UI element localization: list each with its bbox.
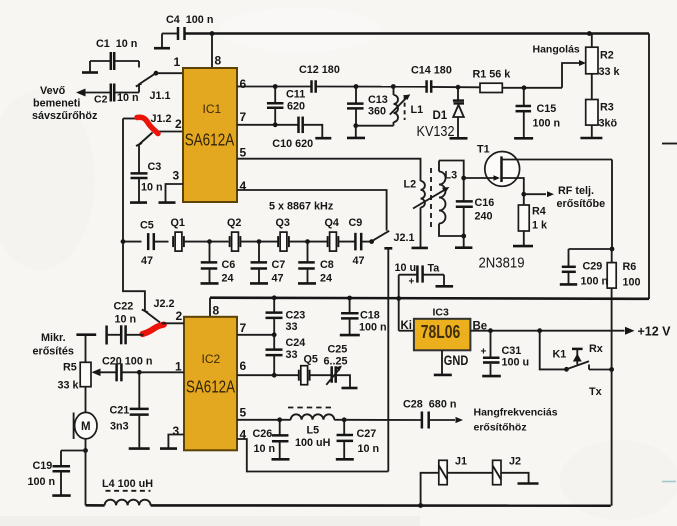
svg-text:47: 47 xyxy=(272,273,284,285)
node C11 top xyxy=(273,84,278,89)
node R2 top xyxy=(587,31,592,36)
capacitor Ta 10u tantalum xyxy=(399,274,418,276)
jack J2 xyxy=(493,460,501,484)
capacitor C7 xyxy=(258,242,260,263)
wire T1 drain down xyxy=(611,160,613,250)
switch J1.2 lever xyxy=(139,133,153,145)
svg-text:C8: C8 xyxy=(320,259,334,271)
wire pin 3 IC1 stub xyxy=(166,184,184,203)
svg-text:M: M xyxy=(81,421,91,433)
svg-text:Q2: Q2 xyxy=(227,217,241,229)
svg-text:erősítőbe: erősítőbe xyxy=(557,198,606,210)
svg-text:R5: R5 xyxy=(63,362,77,374)
svg-text:100 n: 100 n xyxy=(533,118,561,130)
ground C27 xyxy=(336,458,354,461)
wire pin 2 IC1 xyxy=(156,131,183,133)
node C16 bottom xyxy=(461,234,466,239)
svg-text:R1 56 k: R1 56 k xyxy=(473,69,512,81)
ground C13 xyxy=(355,126,357,138)
ground L2 xyxy=(412,247,428,250)
inductor L4 xyxy=(105,500,151,506)
wire J1 to J2 xyxy=(447,472,492,474)
ground pin3 IC1 xyxy=(159,201,176,204)
svg-text:C2: C2 xyxy=(94,94,108,106)
crystal Q4 xyxy=(327,236,329,247)
svg-text:C3: C3 xyxy=(148,161,162,173)
svg-text:J2.1: J2.1 xyxy=(394,232,415,244)
wire bottom ground rail xyxy=(151,504,611,507)
red mark J2.2 xyxy=(143,325,164,334)
svg-text:R3: R3 xyxy=(600,102,614,114)
mic bias terminal bar xyxy=(76,333,96,336)
capacitor C16 xyxy=(463,178,465,201)
node C11 bottom xyxy=(273,122,278,127)
svg-text:33 k: 33 k xyxy=(599,66,621,78)
svg-text:C22: C22 xyxy=(114,301,134,313)
wire C13 to L1 bottom xyxy=(356,125,394,127)
svg-text:5: 5 xyxy=(240,406,247,420)
inductor L3 xyxy=(438,161,440,172)
svg-text:C29: C29 xyxy=(583,261,603,273)
crystal Q1 xyxy=(172,236,174,247)
svg-text:C9: C9 xyxy=(349,217,363,229)
svg-text:4: 4 xyxy=(240,428,247,442)
svg-text:240: 240 xyxy=(475,211,493,223)
capacitor C13 variable xyxy=(355,87,357,104)
svg-text:5 x 8867 kHz: 5 x 8867 kHz xyxy=(269,201,334,213)
svg-text:47: 47 xyxy=(353,255,365,267)
wire Q2 to Q3 xyxy=(240,241,279,243)
wire pin 3 IC2 stub xyxy=(168,435,184,448)
node chain left xyxy=(121,239,126,244)
svg-text:3: 3 xyxy=(173,424,180,438)
svg-text:Q5: Q5 xyxy=(304,354,318,366)
svg-text:Q1: Q1 xyxy=(171,217,185,229)
arrow +12V xyxy=(625,327,635,335)
svg-text:78L06: 78L06 xyxy=(421,322,461,342)
svg-text:33: 33 xyxy=(286,321,298,333)
svg-text:C4 100 n: C4 100 n xyxy=(166,14,213,26)
jack J1 xyxy=(439,460,447,484)
node D1 xyxy=(456,85,461,90)
svg-text:L5: L5 xyxy=(307,425,320,437)
ground C6 xyxy=(201,282,219,285)
svg-text:10 n: 10 n xyxy=(141,182,163,194)
capacitor C18 xyxy=(349,298,351,313)
svg-text:L1: L1 xyxy=(411,104,424,116)
wire pin 5 IC2 xyxy=(237,419,280,421)
wire Q4 to C9 xyxy=(338,241,355,243)
svg-text:2: 2 xyxy=(176,309,183,323)
wire to pin 1 IC2 xyxy=(139,371,184,373)
svg-text:C16: C16 xyxy=(475,197,495,209)
svg-text:T1: T1 xyxy=(477,144,490,156)
wire right drop to bottom rail xyxy=(611,370,613,506)
svg-text:L2: L2 xyxy=(404,179,417,191)
svg-text:J1: J1 xyxy=(455,456,467,468)
svg-text:C31: C31 xyxy=(502,345,522,357)
svg-text:IC2: IC2 xyxy=(202,352,221,366)
node C23 C24 pin7 xyxy=(272,332,277,337)
svg-text:SA612A: SA612A xyxy=(185,129,235,149)
svg-text:+12 V: +12 V xyxy=(638,325,672,339)
wire to J1 xyxy=(421,473,439,506)
capacitor C22 xyxy=(105,326,108,345)
svg-text:+: + xyxy=(481,347,487,358)
svg-text:7: 7 xyxy=(240,110,247,124)
node rail Ta xyxy=(396,296,401,301)
node L1 top xyxy=(391,84,396,89)
ground R4 xyxy=(523,231,525,245)
ground C3 xyxy=(130,201,147,204)
svg-text:8: 8 xyxy=(215,54,222,68)
svg-text:C10 620: C10 620 xyxy=(272,138,313,150)
svg-text:C11: C11 xyxy=(286,89,305,101)
crystal Q5 xyxy=(298,370,300,381)
inductor L2 xyxy=(421,181,425,207)
op-amp U2 mixer IC2 SA612A xyxy=(184,317,237,451)
resistor R2 pot xyxy=(591,34,593,48)
wire R1 to R2 wiper node xyxy=(502,87,562,89)
node pin8 IC1 junction xyxy=(210,31,215,36)
node T1 gate xyxy=(461,176,466,181)
wire R2 to R3 xyxy=(591,74,593,100)
wire pin 7 IC2 xyxy=(237,334,274,336)
node J2.1 pivot xyxy=(369,239,374,244)
svg-text:3kö: 3kö xyxy=(599,118,618,130)
ground C31 xyxy=(482,375,501,378)
arrow to receiver bandfilter xyxy=(76,89,86,97)
capacitor C24 xyxy=(273,335,275,350)
wire Be to +12V xyxy=(470,330,624,332)
capacitor C5 xyxy=(147,233,150,250)
capacitor C12 xyxy=(310,80,313,93)
wire K1 feed xyxy=(540,331,567,370)
svg-text:C6: C6 xyxy=(222,259,236,271)
svg-text:100 n: 100 n xyxy=(581,276,609,288)
svg-text:erősítőhöz: erősítőhöz xyxy=(474,422,527,434)
node C18 rail xyxy=(347,296,352,301)
svg-text:J1.2: J1.2 xyxy=(151,113,172,125)
resistor R1 xyxy=(480,83,502,92)
svg-text:C25: C25 xyxy=(328,344,348,356)
wire bias to R5 xyxy=(85,335,87,363)
resistor R6 xyxy=(611,249,613,263)
svg-text:10 n: 10 n xyxy=(358,443,380,455)
node L5 right xyxy=(342,417,347,422)
wire Q1 to Q2 xyxy=(184,241,229,243)
inductor L5 xyxy=(291,414,335,419)
capacitor C11 xyxy=(274,87,276,104)
wire L3 top to gate node xyxy=(439,161,464,179)
ground C16 xyxy=(463,236,465,247)
svg-text:R6: R6 xyxy=(623,261,637,273)
ground C26 xyxy=(272,458,290,461)
wire J1.1 to pin 1 IC1 xyxy=(156,72,183,74)
wire C2 to J1.1 xyxy=(114,92,139,94)
ground C4 xyxy=(154,47,170,50)
svg-text:Q3: Q3 xyxy=(276,217,290,229)
svg-text:100 uH: 100 uH xyxy=(295,437,331,449)
node C8 xyxy=(305,239,310,244)
wire Rx to right drop xyxy=(589,369,612,371)
crystal Q2 xyxy=(229,236,231,247)
ground C10 xyxy=(315,137,331,140)
wire right supply drop xyxy=(648,34,650,300)
wire to L5 xyxy=(280,419,291,421)
wire Q5 to C25 xyxy=(309,374,331,376)
svg-text:C18: C18 xyxy=(360,310,380,322)
switch K1 relay xyxy=(564,367,569,372)
svg-text:Hangolás: Hangolás xyxy=(533,44,580,56)
wire Ki to rail xyxy=(399,330,414,332)
svg-text:24: 24 xyxy=(320,273,332,285)
svg-text:10 n: 10 n xyxy=(115,314,137,326)
svg-text:C19: C19 xyxy=(33,460,53,472)
svg-text:+: + xyxy=(409,277,415,288)
svg-text:L4 100 uH: L4 100 uH xyxy=(102,478,153,490)
node C13 bottom xyxy=(353,123,358,128)
svg-text:360: 360 xyxy=(368,106,386,118)
red mark J1.2 xyxy=(137,117,158,133)
svg-text:J1.1: J1.1 xyxy=(150,90,171,102)
node drain R6 C29 xyxy=(610,247,615,252)
svg-text:D1: D1 xyxy=(433,110,448,122)
wire mic node to bottom rail xyxy=(85,451,87,506)
wire +6V lower rail xyxy=(210,298,649,299)
capacitor C27 xyxy=(343,420,345,435)
svg-text:C7: C7 xyxy=(272,259,286,271)
node C6 xyxy=(207,239,212,244)
svg-text:1: 1 xyxy=(174,55,181,69)
wire J1.2 open contact and long wire to oscillator chain xyxy=(123,118,137,120)
svg-text:33 k: 33 k xyxy=(58,380,80,392)
svg-text:C20 100 n: C20 100 n xyxy=(102,356,152,368)
svg-text:6..25: 6..25 xyxy=(324,356,348,368)
diode D1 varicap KV132 xyxy=(457,87,459,100)
svg-text:IC3: IC3 xyxy=(433,307,450,319)
ground C19 xyxy=(52,494,70,497)
node K1 branch xyxy=(537,328,542,333)
svg-text:C23: C23 xyxy=(286,310,306,322)
svg-text:R2: R2 xyxy=(600,50,614,62)
svg-text:RF telj.: RF telj. xyxy=(558,185,594,197)
svg-text:C1 10 n: C1 10 n xyxy=(96,38,137,50)
capacitor C14 xyxy=(425,80,428,93)
wire R5 to mic xyxy=(85,387,87,413)
svg-text:C14 180: C14 180 xyxy=(411,65,452,77)
capacitor C20 xyxy=(115,363,118,381)
svg-text:GND: GND xyxy=(444,353,469,368)
svg-text:Hangfrekvenciás: Hangfrekvenciás xyxy=(474,407,558,419)
resistor R4 xyxy=(518,205,529,231)
capacitor C2 xyxy=(110,84,113,102)
svg-text:620: 620 xyxy=(287,101,305,113)
transistor Q1 T1 2N3819 xyxy=(485,152,520,187)
microphone M xyxy=(75,412,97,438)
capacitor C9 xyxy=(354,233,357,251)
core dashes L2 L3 xyxy=(430,168,432,228)
svg-text:Mikr.: Mikr. xyxy=(41,332,66,344)
regulator U3 IC3 78L06 xyxy=(414,319,471,351)
svg-text:6: 6 xyxy=(240,359,247,373)
svg-text:Tx: Tx xyxy=(589,386,602,398)
svg-text:Rx: Rx xyxy=(589,343,603,355)
svg-text:10 n: 10 n xyxy=(117,92,139,104)
wire R6 bottom down to K1 Rx node xyxy=(611,288,613,369)
svg-text:C15: C15 xyxy=(537,103,557,115)
wire Hangolas wiper xyxy=(562,63,580,88)
capacitor C15 xyxy=(523,88,525,106)
wire pin 4 IC2 U route xyxy=(237,439,388,472)
svg-text:L3: L3 xyxy=(445,170,458,182)
svg-text:100 n: 100 n xyxy=(359,322,387,334)
svg-text:bemeneti: bemeneti xyxy=(33,98,80,110)
wire pin 7 IC1 xyxy=(237,124,298,126)
open contact bar C1 xyxy=(82,71,98,74)
capacitor C6 xyxy=(209,242,211,263)
capacitor C10 xyxy=(297,117,300,134)
ground Ta xyxy=(436,285,454,288)
svg-text:C24: C24 xyxy=(286,337,306,349)
svg-text:8: 8 xyxy=(213,304,220,318)
svg-text:K1: K1 xyxy=(553,349,567,361)
capacitor C3 xyxy=(138,145,140,174)
node J1.1 common xyxy=(154,71,159,76)
capacitor C8 xyxy=(307,242,309,263)
arrow R5 wiper xyxy=(92,369,101,377)
capacitor C31 electrolytic xyxy=(490,331,492,358)
core dashes L1 xyxy=(404,95,406,120)
node C19 xyxy=(83,448,88,453)
wire Ta branch vertical xyxy=(398,275,400,331)
ground D1 xyxy=(450,137,468,140)
svg-text:KV132: KV132 xyxy=(417,124,455,140)
svg-text:R4: R4 xyxy=(532,206,546,218)
node C21 top xyxy=(137,370,142,375)
wire C25 to ground xyxy=(336,375,350,387)
capacitor C21 xyxy=(138,372,140,408)
svg-text:3n3: 3n3 xyxy=(110,421,129,433)
resistor R5 pot xyxy=(80,362,91,386)
ground pin3 IC2 xyxy=(160,447,177,450)
arrow variable C13 xyxy=(390,97,407,114)
relay actuator K1 xyxy=(572,348,583,351)
capacitor C23 xyxy=(273,298,275,313)
svg-text:C13: C13 xyxy=(368,94,388,106)
wire J2 to ground xyxy=(501,473,529,483)
node relay branch bottom xyxy=(418,503,423,508)
svg-text:IC1: IC1 xyxy=(203,102,222,116)
wire to C19 xyxy=(61,450,86,452)
ground GND 78L06 xyxy=(441,350,443,374)
switch J2.2 lever xyxy=(145,311,160,323)
wire pin 2 IC2 xyxy=(162,322,185,324)
svg-text:100: 100 xyxy=(623,277,641,289)
ground C21 xyxy=(129,447,150,450)
capacitor C1 xyxy=(110,52,113,70)
svg-text:Vevő: Vevő xyxy=(40,85,66,97)
svg-text:sávszűrőhöz: sávszűrőhöz xyxy=(32,110,98,122)
svg-text:Q4: Q4 xyxy=(325,217,339,229)
svg-text:7: 7 xyxy=(240,321,247,335)
capacitor C29 xyxy=(568,249,570,266)
wire J2.1 contact down to IC2 pin 4 xyxy=(387,248,389,471)
ground R3 xyxy=(591,125,593,137)
svg-text:C21: C21 xyxy=(110,405,130,417)
svg-text:47: 47 xyxy=(141,255,153,267)
wire L5 to C28 xyxy=(334,419,344,421)
svg-text:J2.2: J2.2 xyxy=(154,298,175,310)
ground C15 xyxy=(514,137,533,140)
switch J2.1 lever xyxy=(371,231,389,242)
inductor L1 xyxy=(393,87,395,96)
svg-text:C26: C26 xyxy=(253,428,273,440)
node RF branch xyxy=(521,192,526,197)
svg-text:Ta: Ta xyxy=(428,263,441,275)
wire drain node to C29 xyxy=(569,248,613,250)
ground J2 xyxy=(518,482,539,485)
wire C9 to J2.1 pivot xyxy=(361,241,371,243)
wire pin 8 IC1 xyxy=(211,34,213,69)
svg-text:SA612A: SA612A xyxy=(186,377,235,397)
svg-text:3: 3 xyxy=(173,169,180,183)
svg-text:erősítés: erősítés xyxy=(33,346,74,358)
node C23 rail xyxy=(272,295,277,300)
wire +6V top rail xyxy=(185,32,650,35)
wire pin 5 IC1 to L2 xyxy=(237,159,421,181)
node Rx xyxy=(609,367,614,372)
svg-text:10 u: 10 u xyxy=(395,262,417,274)
svg-text:100 u: 100 u xyxy=(502,357,530,369)
wire pin 4 IC1 to J2.1 xyxy=(237,190,387,231)
open contact bar J2.1 xyxy=(384,247,392,250)
node C15 top xyxy=(522,85,527,90)
capacitor C28 xyxy=(421,412,424,429)
capacitor C25 trimmer xyxy=(330,366,333,383)
wire oscillator chain xyxy=(123,241,142,243)
svg-text:2: 2 xyxy=(175,117,182,131)
arrow variable transformer xyxy=(413,189,446,208)
switch J1.1 lever xyxy=(139,73,156,84)
resistor R3 xyxy=(586,100,598,126)
ground C29 xyxy=(560,283,577,286)
svg-text:6: 6 xyxy=(240,77,247,91)
op-amp U1 mixer IC1 SA612A xyxy=(183,68,237,202)
svg-text:C5: C5 xyxy=(140,220,154,232)
crystal Q3 xyxy=(277,236,279,247)
arrow audio output xyxy=(429,419,455,421)
wire C5 to Q1 xyxy=(154,241,169,243)
wire J2.2 step from chain xyxy=(123,242,145,311)
svg-text:C28 680 n: C28 680 n xyxy=(403,399,456,411)
wire pin 6 IC1 output line xyxy=(237,86,312,88)
artifact dash right edge xyxy=(662,143,677,145)
svg-text:100 n: 100 n xyxy=(28,476,56,488)
artifact teal dash xyxy=(662,481,676,483)
wire C14 to R1 xyxy=(431,86,480,88)
node C24 pin6 xyxy=(272,373,277,378)
node L5 left xyxy=(277,417,282,422)
svg-text:C27: C27 xyxy=(357,428,377,440)
capacitor C4 xyxy=(177,27,180,40)
capacitor C26 xyxy=(279,420,281,435)
svg-text:C12 180: C12 180 xyxy=(299,64,340,76)
node C31 xyxy=(488,328,493,333)
capacitor C19 xyxy=(60,451,62,467)
ground C18 xyxy=(340,334,360,337)
wire Q3 to Q4 xyxy=(289,241,329,243)
